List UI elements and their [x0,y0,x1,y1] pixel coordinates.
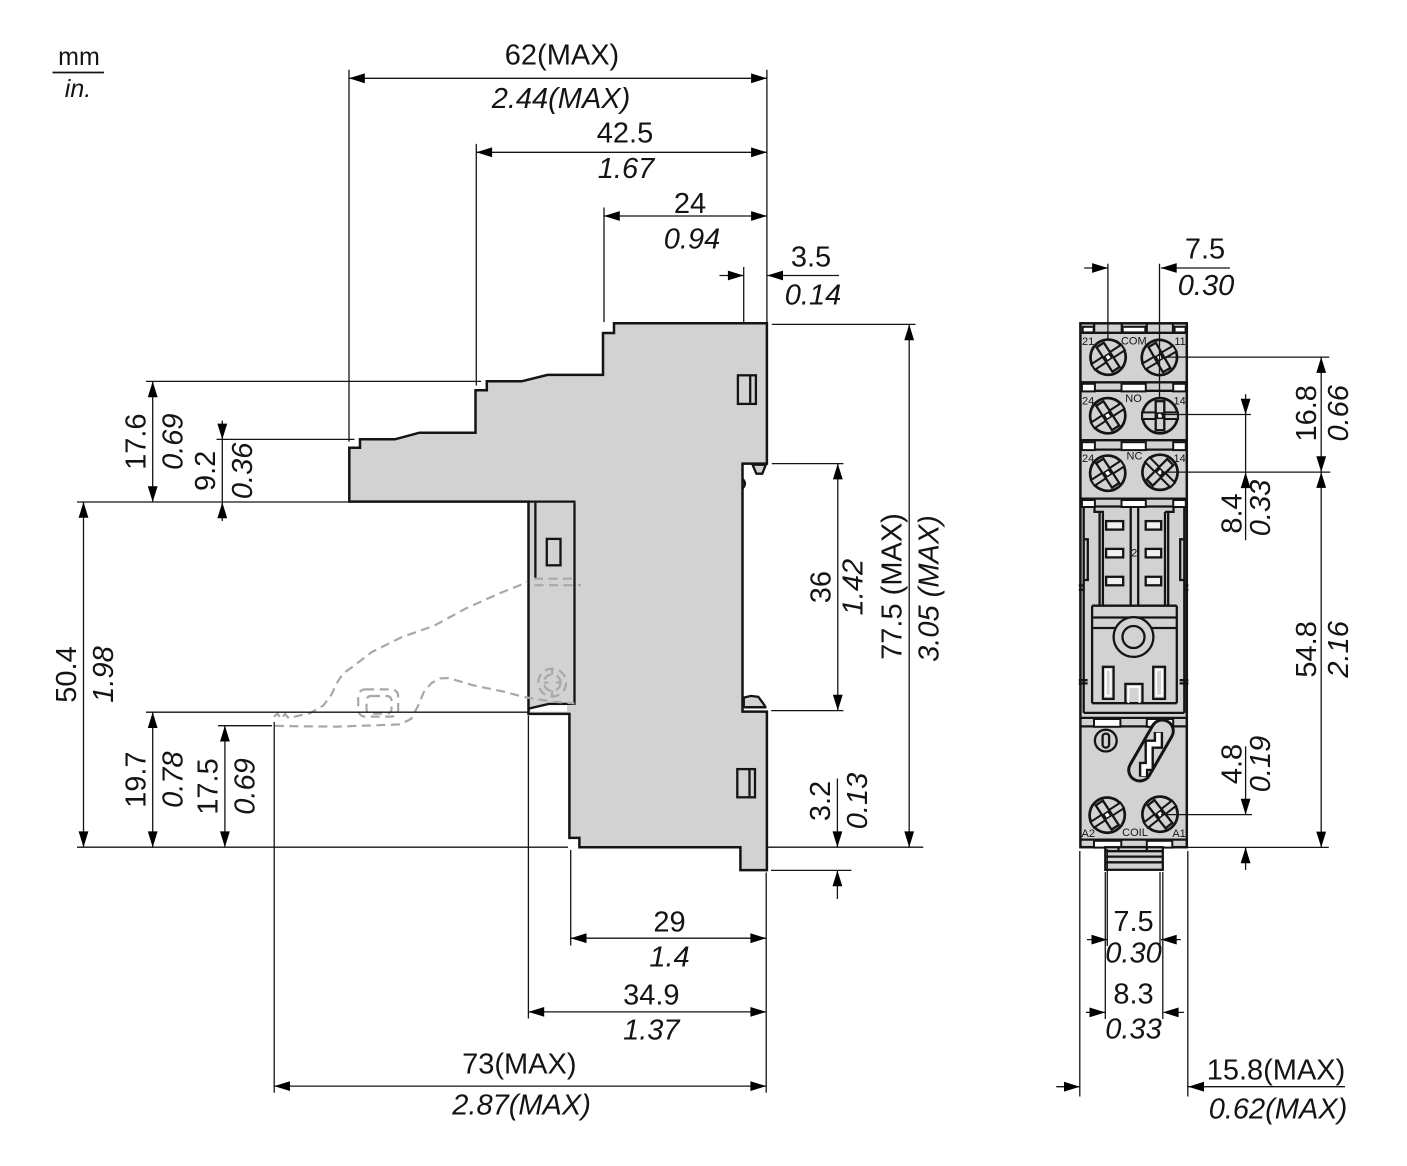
svg-text:1.37: 1.37 [623,1015,681,1047]
svg-text:COIL: COIL [1122,827,1148,839]
svg-text:9.2: 9.2 [190,451,222,491]
row3 screws [1083,449,1132,498]
dimension 9.2 vertical [190,421,355,521]
svg-text:4.8: 4.8 [1216,744,1248,784]
dimension 62(MAX) [349,40,767,442]
svg-text:2.87(MAX): 2.87(MAX) [451,1090,591,1122]
svg-text:29: 29 [653,907,685,939]
dimension 24 [604,188,767,322]
svg-text:3.2: 3.2 [805,781,837,821]
side view DIN slot top [738,375,756,404]
svg-text:2.44(MAX): 2.44(MAX) [491,83,631,115]
big circle [1114,617,1154,657]
middle bottom line [1084,712,1185,714]
guide rails [1100,512,1103,605]
svg-text:0.30: 0.30 [1178,270,1234,302]
svg-text:NO: NO [1125,393,1142,405]
svg-text:8.4: 8.4 [1216,493,1248,533]
dimension 36 vertical [771,464,869,711]
side edge notches mid [1079,585,1084,589]
svg-text:50.4: 50.4 [51,646,83,702]
svg-text:0.78: 0.78 [158,751,190,807]
svg-text:0.33: 0.33 [1105,1014,1161,1046]
svg-text:1.67: 1.67 [598,153,656,185]
svg-text:73(MAX): 73(MAX) [462,1049,576,1081]
side view DIN slot bottom [737,769,755,797]
svg-text:36: 36 [806,571,838,603]
svg-text:7.5: 7.5 [1113,906,1153,938]
bottom band [1082,838,1186,840]
center bottom notch [1125,684,1142,703]
front view body [1079,323,1189,870]
dimension 3.5 [720,242,842,323]
svg-text:77.5 (MAX): 77.5 (MAX) [877,513,909,660]
dimension 34.9 [528,716,766,1047]
svg-text:COM: COM [1121,336,1147,348]
svg-text:3.5: 3.5 [791,242,831,274]
svg-text:0.69: 0.69 [158,413,190,469]
svg-text:0.62(MAX): 0.62(MAX) [1209,1094,1348,1126]
svg-text:A2: A2 [1082,828,1095,840]
svg-text:in.: in. [65,75,91,103]
side wall brackets [1084,539,1088,580]
side view internal edges [529,502,576,712]
svg-text:0.13: 0.13 [842,773,874,829]
svg-text:0.94: 0.94 [664,223,720,255]
dimension 19.7 vertical [121,712,528,847]
svg-text:7.5: 7.5 [1185,234,1225,266]
dimension 8.3 bottom front [1086,872,1184,1046]
dimension 17.5 vertical [193,726,273,848]
dimension 42.5 [476,118,767,386]
svg-text:0.36: 0.36 [227,442,259,499]
separator band 4 [1082,717,1186,719]
release lever icon [1125,716,1178,785]
svg-text:0.66: 0.66 [1323,384,1355,441]
right edge bump [743,479,745,488]
row2 screws [1083,391,1132,440]
svg-text:1.42: 1.42 [838,559,870,615]
svg-text:1.98: 1.98 [88,646,120,702]
top strip [1082,332,1186,334]
legend mm/in [53,43,105,103]
svg-text:17.6: 17.6 [121,413,153,469]
bottom reference line y=847 [77,846,568,848]
svg-text:0.69: 0.69 [230,758,262,814]
contact windows [1106,521,1123,530]
dimension 73(MAX) [274,722,766,1122]
dimension 8.4 right [1161,394,1277,540]
dimension 29 [571,850,767,1093]
svg-text:0.14: 0.14 [785,280,841,312]
svg-text:16.8: 16.8 [1291,385,1323,441]
dimension 77.5 (MAX) vertical [767,324,946,847]
separator band 2 [1082,439,1186,441]
svg-text:2.16: 2.16 [1323,620,1355,678]
dimension 16.8 right [1161,357,1355,472]
dimension 50.4 vertical [51,502,349,847]
separator band 1 [1082,381,1186,383]
svg-text:21: 21 [1082,336,1094,348]
dimension 3.2 vertical [771,773,874,899]
svg-text:54.8: 54.8 [1291,621,1323,677]
foot [1105,847,1163,870]
svg-text:1.4: 1.4 [649,942,689,974]
svg-text:A1: A1 [1172,828,1185,840]
dimension 54.8 right [1161,472,1355,847]
svg-text:15.8(MAX): 15.8(MAX) [1207,1055,1346,1087]
svg-text:62(MAX): 62(MAX) [505,40,619,72]
middle section inner walls [1083,507,1085,713]
band line [1092,627,1177,629]
lower slots [1103,667,1114,699]
dimension 15.8(MAX) bottom front [1056,851,1347,1126]
lower hook tooth [744,696,765,707]
svg-text:0.19: 0.19 [1245,736,1277,792]
svg-text:17.5: 17.5 [193,758,225,814]
side view body [349,323,767,870]
coil screws [1083,791,1132,840]
rail clip tip trapezoid [753,465,766,474]
svg-text:0.30: 0.30 [1105,938,1161,970]
svg-text:NC: NC [1127,451,1143,463]
separator band 3 [1082,497,1186,499]
lower panel [1092,605,1177,607]
row1 screws [1084,333,1133,382]
svg-text:mm: mm [58,43,100,71]
svg-text:2: 2 [1131,548,1137,560]
side edge notches low [1079,680,1088,683]
svg-text:42.5: 42.5 [597,118,653,150]
small circle with slot [1095,730,1117,752]
dimension 4.8 right [1161,736,1329,870]
svg-text:34.9: 34.9 [623,980,679,1012]
dimension 7.5 top front [1084,234,1234,399]
svg-text:8.3: 8.3 [1113,979,1153,1011]
center column [1130,507,1132,605]
svg-text:24: 24 [674,188,706,220]
dimension 7.5 bottom front [1087,849,1181,970]
dimension 17.6 vertical [121,381,482,502]
svg-text:19.7: 19.7 [121,751,153,807]
svg-text:3.05 (MAX): 3.05 (MAX) [914,515,946,662]
phantom clip dashed [274,579,581,727]
svg-text:0.33: 0.33 [1245,480,1277,536]
side view column slot [547,539,561,565]
svg-text:11: 11 [1174,336,1185,348]
